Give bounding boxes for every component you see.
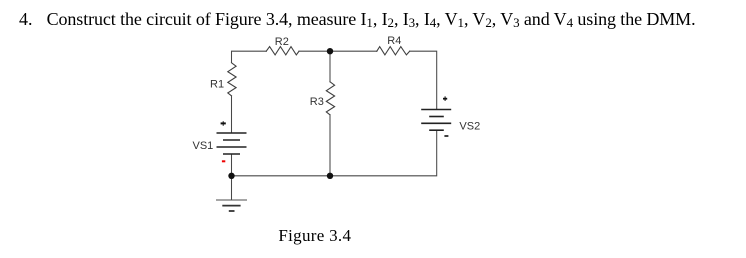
caption Figure 3.4 [278, 227, 351, 244]
svg-text:R1: R1 [210, 79, 224, 91]
wire middle branch upper [329, 51, 331, 82]
battery VS2 [421, 110, 451, 131]
svg-text:VS1: VS1 [193, 140, 214, 152]
wire VS2 to bottom corner [330, 130, 437, 176]
wire VS1 to bottom junction [231, 154, 233, 176]
node junction bottom-middle [327, 173, 333, 179]
resistor R4 [377, 47, 410, 55]
node junction bottom-left [228, 173, 234, 179]
svg-text:VS2: VS2 [459, 121, 480, 133]
wire R1 to VS1 [231, 96, 233, 133]
resistor R3 [326, 82, 334, 115]
wire top-middle segment [299, 50, 377, 52]
svg-text:R2: R2 [275, 36, 289, 48]
wire middle branch lower [329, 115, 331, 176]
resistor R1 [228, 63, 236, 96]
question text line [19, 10, 33, 28]
wire top-left segment [232, 51, 267, 62]
svg-text:R4: R4 [387, 35, 401, 47]
wire top-right segment [410, 51, 437, 109]
battery VS1 [217, 133, 247, 154]
minus sign VS2 [444, 135, 448, 137]
ground [216, 200, 247, 211]
plus sign VS1 [221, 121, 226, 126]
resistor R2 [266, 47, 299, 55]
minus sign VS1 (red) [222, 160, 225, 162]
node junction top-middle [327, 48, 333, 54]
svg-text:R3: R3 [310, 96, 324, 108]
plus sign VS2 [443, 96, 447, 101]
wire ground stub [231, 176, 233, 200]
wire bottom left segment [232, 175, 331, 177]
